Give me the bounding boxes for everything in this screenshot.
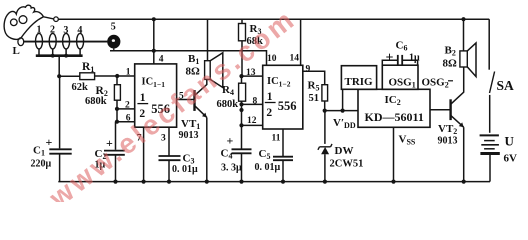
battery U 6V bbox=[480, 135, 500, 181]
svg-text:OSG1: OSG1 bbox=[389, 77, 416, 90]
resistor R5 bbox=[322, 85, 328, 111]
speaker B1 bbox=[205, 19, 223, 87]
svg-text:11: 11 bbox=[272, 134, 281, 144]
label C2 bbox=[95, 148, 107, 161]
svg-text:680k: 680k bbox=[85, 96, 107, 107]
coil bottom terminal bbox=[18, 38, 24, 46]
label 2CW51 bbox=[330, 158, 364, 169]
label DW bbox=[335, 145, 354, 157]
wire coil tap line bbox=[24, 41, 108, 43]
label TRIG bbox=[345, 76, 374, 88]
svg-text:8: 8 bbox=[253, 97, 258, 107]
node rail pin4 junction bbox=[152, 17, 156, 21]
label KD-56011 bbox=[365, 110, 424, 124]
svg-text:C1: C1 bbox=[33, 145, 45, 158]
svg-text:8Ω: 8Ω bbox=[443, 58, 458, 70]
transistor VT2 9013 bbox=[451, 67, 464, 182]
label pin2 bbox=[125, 101, 130, 111]
svg-text:9013: 9013 bbox=[179, 130, 199, 141]
label 9013 a bbox=[179, 130, 199, 141]
label pin3 bbox=[161, 134, 166, 144]
box OSG1 bbox=[382, 65, 418, 89]
wire pin2 stub bbox=[117, 108, 135, 110]
label pin5 bbox=[179, 92, 184, 102]
wire tap bus bar bbox=[36, 54, 83, 58]
svg-text:+: + bbox=[386, 51, 394, 66]
svg-text:KD—56011: KD—56011 bbox=[365, 110, 424, 124]
wire node A down to C1 bbox=[59, 76, 61, 148]
node DW ground junction bbox=[323, 180, 327, 184]
label 6V bbox=[504, 153, 518, 165]
box TRIG bbox=[341, 66, 376, 90]
wire pin2-pin6 bbox=[116, 109, 118, 122]
label pin11 bbox=[272, 134, 281, 144]
wire IC2 output to VT2 base bbox=[430, 109, 451, 111]
label 0.01u C5 bbox=[255, 162, 281, 173]
label VT2 bbox=[438, 123, 457, 136]
svg-text:OSG2: OSG2 bbox=[422, 77, 449, 90]
svg-text:+: + bbox=[46, 135, 53, 149]
svg-text:0. 01μ: 0. 01μ bbox=[255, 162, 281, 173]
wire bus to node A bbox=[58, 57, 60, 76]
svg-text:IC1−2: IC1−2 bbox=[267, 76, 291, 89]
label 220u bbox=[31, 159, 52, 170]
node TRIG stub junction bbox=[341, 109, 345, 113]
node pin6 junction bbox=[115, 120, 119, 124]
svg-text:VT2: VT2 bbox=[438, 123, 457, 136]
capacitor C3 bbox=[159, 156, 181, 182]
wire pin11 stub down bbox=[282, 129, 284, 156]
tap loop 2 bbox=[49, 33, 56, 54]
label IC2 bbox=[385, 94, 401, 107]
label 3.3u bbox=[221, 163, 242, 174]
wire pin7 drop to ground bbox=[143, 127, 145, 181]
tap loop 1 bbox=[36, 33, 43, 54]
label 8ohm a bbox=[186, 66, 201, 78]
label VDD bbox=[333, 117, 356, 130]
node C4 ground junction bbox=[239, 180, 243, 184]
svg-text:C5: C5 bbox=[259, 148, 271, 161]
svg-text:3. 3μ: 3. 3μ bbox=[221, 163, 242, 174]
svg-text:2CW51: 2CW51 bbox=[330, 158, 364, 169]
wire pin3 stub down bbox=[168, 127, 170, 155]
inductor L (search coil scribble) bbox=[4, 5, 54, 39]
svg-text:14: 14 bbox=[290, 54, 300, 64]
label 1/2 556 a bbox=[137, 92, 170, 120]
node rail B2 junction bbox=[461, 17, 465, 21]
label C5 bbox=[259, 148, 271, 161]
label R1 bbox=[82, 61, 94, 74]
svg-text:51: 51 bbox=[309, 93, 320, 104]
node VCC2 pin4 junction bbox=[152, 49, 156, 53]
wire pin12 down to C4 bbox=[241, 125, 243, 148]
node pin1 junction bbox=[115, 74, 119, 78]
label C6 bbox=[396, 40, 408, 53]
wire pin6 stub bbox=[117, 121, 135, 123]
label pin1 bbox=[126, 68, 131, 78]
resistor R4 bbox=[239, 76, 246, 104]
svg-text:1: 1 bbox=[140, 92, 146, 104]
svg-text:VT1: VT1 bbox=[181, 118, 200, 131]
label R2 bbox=[96, 85, 108, 98]
label B1 bbox=[188, 53, 199, 66]
label VT1 bbox=[181, 118, 200, 131]
svg-text:1: 1 bbox=[37, 25, 42, 36]
svg-text:2: 2 bbox=[266, 107, 272, 119]
svg-text:DW: DW bbox=[335, 145, 354, 157]
label IC1-1 bbox=[142, 77, 166, 90]
wire pin4 drop from rail bbox=[153, 19, 155, 64]
svg-text:TRIG: TRIG bbox=[345, 76, 374, 88]
resistor R2 bbox=[114, 76, 120, 109]
label 0.01u C3 bbox=[172, 164, 198, 175]
zener diode DW 2CW51 bbox=[318, 111, 332, 182]
tap loop 3 bbox=[63, 33, 70, 54]
svg-text:4: 4 bbox=[77, 25, 82, 36]
resistor R1 bbox=[59, 73, 135, 80]
label tap 3 bbox=[63, 25, 68, 36]
ic IC2 KD-56011 box bbox=[358, 89, 430, 127]
svg-text:B2: B2 bbox=[445, 45, 456, 58]
op IC1-2 556 timer box U1b bbox=[263, 65, 303, 129]
coil top terminal bbox=[54, 17, 59, 22]
label 68k bbox=[247, 36, 264, 47]
label 8ohm b bbox=[443, 58, 458, 70]
label VSS bbox=[399, 134, 416, 147]
node pin8 junction bbox=[239, 102, 243, 106]
svg-text:+: + bbox=[227, 134, 234, 148]
svg-text:R1: R1 bbox=[82, 61, 94, 74]
svg-text:VSS: VSS bbox=[399, 134, 416, 147]
node pin13 junction bbox=[239, 74, 243, 78]
capacitor C6 bbox=[382, 55, 417, 66]
label 680k R4 bbox=[217, 99, 239, 110]
label tap 4 bbox=[77, 25, 82, 36]
node A junction bbox=[57, 74, 61, 78]
svg-text:12: 12 bbox=[247, 116, 257, 126]
label 1u C6 bbox=[409, 52, 420, 63]
svg-text:10: 10 bbox=[267, 54, 277, 64]
capacitor C5 bbox=[273, 157, 293, 182]
wire pin5 stub bbox=[177, 99, 195, 101]
label C4 bbox=[221, 148, 233, 161]
wire pin6 down to C2 bbox=[115, 122, 117, 150]
wire bottom ground rail bbox=[58, 181, 490, 183]
wire pin8 stub bbox=[242, 103, 263, 105]
label OSG1 bbox=[389, 77, 416, 90]
wire pin9 stub bbox=[303, 71, 325, 84]
label contact 5 bbox=[111, 22, 116, 33]
node C3 ground junction bbox=[167, 180, 171, 184]
label plus C6 bbox=[386, 51, 394, 66]
wire VCC feed line (y=50.8) bbox=[110, 51, 267, 66]
node VSS ground junction bbox=[391, 180, 395, 184]
speaker B2 bbox=[460, 19, 476, 76]
label pin8 bbox=[253, 97, 258, 107]
label plus C2 bbox=[106, 136, 113, 150]
transistor VT1 9013 bbox=[195, 79, 207, 181]
svg-text:IC1−1: IC1−1 bbox=[142, 77, 166, 90]
node C2 ground junction bbox=[113, 180, 117, 184]
node pin7 ground junction bbox=[142, 180, 146, 184]
label pin4 bbox=[159, 54, 164, 64]
op IC1-1 556 timer box U1a bbox=[135, 64, 177, 127]
svg-text:SA: SA bbox=[497, 78, 515, 93]
label L bbox=[13, 45, 20, 57]
wire TRIG stub bbox=[342, 89, 344, 110]
label R3 bbox=[250, 23, 262, 36]
svg-text:V′DD: V′DD bbox=[333, 117, 356, 130]
label 1u C2 bbox=[95, 160, 106, 171]
svg-text:220μ: 220μ bbox=[31, 159, 52, 170]
label pin10 bbox=[267, 54, 277, 64]
label pin12 bbox=[247, 116, 257, 126]
svg-text:9013: 9013 bbox=[438, 136, 458, 147]
label 680k R2 bbox=[85, 96, 107, 107]
svg-text:C4: C4 bbox=[221, 148, 233, 161]
label 51 bbox=[309, 93, 320, 104]
node C5 ground junction bbox=[281, 180, 285, 184]
node VT1 emitter ground junction bbox=[205, 180, 209, 184]
wire VSS stub to ground bbox=[393, 128, 395, 182]
wire top supply rail bbox=[58, 18, 489, 20]
label OSG2 bbox=[422, 77, 454, 90]
label tap 1 bbox=[37, 25, 42, 36]
wire pin12 stub bbox=[239, 123, 262, 127]
wire pin13 stub bbox=[242, 75, 263, 77]
svg-text:U: U bbox=[505, 134, 515, 149]
label plus C1 bbox=[46, 135, 53, 149]
tap loop 4 bbox=[77, 33, 84, 54]
svg-text:3: 3 bbox=[63, 25, 68, 36]
wire pin8-pin12 bbox=[241, 104, 243, 125]
label 1/2 556 b bbox=[265, 91, 297, 119]
svg-text:0. 01μ: 0. 01μ bbox=[172, 164, 198, 175]
wire pin14 drop from rail bbox=[300, 19, 302, 65]
svg-text:R5: R5 bbox=[308, 80, 320, 93]
svg-text:L: L bbox=[13, 45, 20, 57]
svg-text:2: 2 bbox=[125, 101, 130, 111]
svg-text:1: 1 bbox=[126, 68, 131, 78]
resistor R3 bbox=[239, 19, 246, 76]
wire VDD line bbox=[325, 110, 358, 112]
label IC1-2 bbox=[267, 76, 291, 89]
label 9013 b bbox=[438, 136, 458, 147]
label U bbox=[505, 134, 515, 149]
node pin12 junction bbox=[239, 108, 243, 112]
contact 5 wiper dot bbox=[107, 35, 120, 51]
watermark www.elecfans.com bbox=[43, 3, 302, 214]
label C3 bbox=[183, 153, 195, 166]
svg-text:62k: 62k bbox=[72, 82, 89, 93]
svg-text:556: 556 bbox=[278, 99, 297, 113]
svg-text:1μ: 1μ bbox=[409, 52, 420, 63]
label pin7 bbox=[137, 134, 142, 144]
capacitor C2 bbox=[104, 151, 125, 182]
capacitor C1 bbox=[49, 149, 71, 181]
svg-text:680k: 680k bbox=[217, 99, 239, 110]
label SA bbox=[497, 78, 515, 93]
label pin13 bbox=[246, 68, 256, 78]
label R4 bbox=[222, 84, 234, 97]
svg-text:9: 9 bbox=[306, 64, 311, 74]
label plus C4 bbox=[227, 134, 234, 148]
svg-text:IC2: IC2 bbox=[385, 94, 401, 107]
svg-text:4: 4 bbox=[159, 54, 164, 64]
svg-text:C6: C6 bbox=[396, 40, 408, 53]
label pin6 bbox=[126, 114, 131, 124]
svg-text:6V: 6V bbox=[504, 153, 518, 165]
label pin9 bbox=[306, 64, 311, 74]
svg-text:5: 5 bbox=[111, 22, 116, 33]
switch SA bbox=[489, 19, 494, 133]
svg-text:13: 13 bbox=[246, 68, 256, 78]
svg-text:2: 2 bbox=[50, 25, 55, 36]
node pin2 junction bbox=[115, 107, 119, 111]
label C1 bbox=[33, 145, 45, 158]
svg-text:B1: B1 bbox=[188, 53, 199, 66]
node R5 bottom junction bbox=[323, 109, 327, 113]
capacitor C4 bbox=[232, 149, 252, 181]
label pin14 bbox=[290, 54, 300, 64]
label B2 bbox=[445, 45, 456, 58]
label 62k bbox=[72, 82, 89, 93]
label tap 2 bbox=[50, 25, 55, 36]
label R5 bbox=[308, 80, 320, 93]
svg-text:1: 1 bbox=[267, 91, 273, 103]
node VT2 emitter ground junction bbox=[462, 180, 466, 184]
